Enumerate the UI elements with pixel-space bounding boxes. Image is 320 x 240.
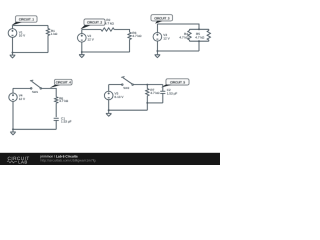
ground xyxy=(106,110,112,116)
wire bottom rail xyxy=(13,52,49,54)
resistor R1 xyxy=(46,26,58,53)
capacitor C2 xyxy=(160,85,177,103)
wire bottom bar xyxy=(147,102,163,104)
resistor R4 xyxy=(179,29,191,41)
callout pointer xyxy=(155,21,162,24)
switch SW2 xyxy=(121,77,133,90)
node junction bottom xyxy=(198,40,200,42)
wire bottom rail xyxy=(13,128,56,130)
svg-text:LAB: LAB xyxy=(18,160,28,165)
switch SW1 xyxy=(30,80,42,94)
wire source bottom lead xyxy=(81,42,83,52)
node junction top xyxy=(198,28,200,30)
top bar of parallel pair xyxy=(190,28,209,30)
node junction xyxy=(12,128,14,130)
wire source top lead xyxy=(12,26,14,29)
voltage source V3 xyxy=(153,33,171,42)
wire top xyxy=(157,24,199,29)
voltage source V2 xyxy=(78,34,95,43)
svg-text:http://circuitlab.com/c/58tgws: http://circuitlab.com/c/58tgwsm1m7fg xyxy=(41,159,96,163)
voltage source V5 xyxy=(104,91,124,100)
callout pointer xyxy=(161,85,171,88)
resistor R5 xyxy=(195,29,210,41)
annotation box CIRCUIT_3 xyxy=(151,15,173,21)
wire bottom rail xyxy=(82,51,130,53)
callout pointer xyxy=(50,85,60,88)
wire source top lead xyxy=(156,24,158,33)
callout pointer xyxy=(81,25,91,29)
voltage source V4 xyxy=(9,93,26,101)
node junction xyxy=(157,50,159,52)
wire top left xyxy=(82,29,101,31)
ground xyxy=(79,52,85,58)
node junction xyxy=(81,51,83,53)
resistor R2 xyxy=(101,18,115,31)
resistor R6 xyxy=(55,96,69,117)
resistor R3 xyxy=(128,31,142,52)
annotation box CIRCUIT_2 xyxy=(84,19,105,25)
wire top left xyxy=(13,87,31,89)
ground xyxy=(10,129,16,135)
wire top right xyxy=(114,30,129,33)
wire top right xyxy=(42,88,57,96)
wire bottom rail xyxy=(157,50,199,52)
wire source bottom lead xyxy=(12,101,14,129)
wire source top lead xyxy=(81,30,83,34)
wire top left xyxy=(109,84,122,86)
wire top right xyxy=(133,84,163,86)
callout pointer xyxy=(12,22,22,26)
annotation box CIRCUIT_5 xyxy=(166,79,189,85)
wire top xyxy=(13,25,49,27)
bottom bar of parallel pair xyxy=(190,40,209,42)
capacitor C1 xyxy=(54,116,72,129)
wire source bottom lead xyxy=(12,37,14,52)
wire drop to rail xyxy=(146,103,148,110)
node junction top xyxy=(146,84,148,86)
wire center drop xyxy=(198,41,200,51)
resistor R7 xyxy=(146,85,161,103)
voltage source V1 xyxy=(8,29,26,38)
node junction xyxy=(12,52,14,54)
wire source top lead xyxy=(108,85,110,92)
ground xyxy=(155,51,161,58)
wire bottom rail xyxy=(109,109,148,111)
wire source bottom lead xyxy=(156,41,158,51)
ground xyxy=(10,53,16,58)
annotation box CIRCUIT_4 xyxy=(55,79,73,85)
wire source top lead xyxy=(12,88,14,93)
node junction xyxy=(108,109,110,111)
wire source bottom lead xyxy=(108,100,110,110)
annotation box CIRCUIT_1 xyxy=(16,16,38,22)
node junction bottom xyxy=(146,102,148,104)
